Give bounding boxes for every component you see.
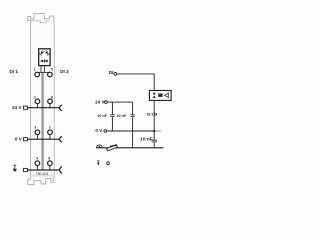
fork contact 24V xyxy=(59,105,61,111)
terminal 0V right xyxy=(104,130,107,133)
rail contact dot xyxy=(98,146,100,148)
housing bottom foot xyxy=(28,178,54,184)
LED D2 xyxy=(44,50,50,56)
connector square 0V xyxy=(23,138,27,141)
block glyph opto xyxy=(165,92,169,98)
connector square 24V xyxy=(23,106,27,109)
stub t4 xyxy=(36,166,38,171)
legend arrow xyxy=(97,161,100,166)
wire 24V right xyxy=(107,101,132,103)
svg-text:DI 1: DI 1 xyxy=(9,69,18,74)
stub t8 xyxy=(49,166,51,171)
wire 24V corner down xyxy=(132,102,134,148)
legend circle xyxy=(107,162,110,165)
terminal 2 xyxy=(35,99,40,104)
terminal 5 xyxy=(48,72,53,77)
svg-text:DI 2: DI 2 xyxy=(147,113,154,117)
svg-text:DI: DI xyxy=(109,70,114,75)
terminal 7 xyxy=(48,130,53,135)
wire DI horizontal xyxy=(117,73,154,75)
wire 0V stub xyxy=(154,130,161,132)
earth arrow left xyxy=(13,165,18,172)
fork contact earth xyxy=(59,167,61,174)
svg-text:0 V: 0 V xyxy=(95,128,102,133)
housing top profile xyxy=(28,14,54,24)
housing latch notch xyxy=(31,21,49,23)
terminal 24V right xyxy=(105,101,108,104)
wire below C3 xyxy=(153,142,155,148)
wire below block xyxy=(153,100,155,139)
housing bottom separator xyxy=(32,175,54,177)
housing right edge xyxy=(53,24,55,179)
cap branch C1 xyxy=(111,102,113,131)
svg-text:10 nF: 10 nF xyxy=(116,114,126,118)
svg-text:1: 1 xyxy=(34,68,36,72)
input block U2 xyxy=(149,91,171,101)
svg-text:0 V: 0 V xyxy=(15,136,23,141)
connector square earth xyxy=(23,168,27,171)
LED D1 xyxy=(39,50,45,56)
svg-text:10 nF: 10 nF xyxy=(140,136,153,142)
terminal 8 xyxy=(48,161,53,166)
housing left edge xyxy=(28,20,31,179)
wire 0V right xyxy=(107,130,155,132)
capacitor C1 xyxy=(110,115,114,117)
stub t6 xyxy=(49,104,51,108)
suppressor diode xyxy=(41,59,49,63)
svg-text:3: 3 xyxy=(34,125,36,129)
fork contact 0V xyxy=(59,136,61,142)
module body fill xyxy=(31,20,55,177)
wire 0V bus xyxy=(26,138,59,140)
indicator box U1 xyxy=(39,49,50,66)
stub t2 xyxy=(36,104,38,108)
center rib wires xyxy=(41,72,43,170)
svg-text:24 V: 24 V xyxy=(12,105,22,110)
page background xyxy=(0,0,200,200)
svg-text:4: 4 xyxy=(36,156,38,160)
stub t3 xyxy=(36,135,38,140)
wire row1 connector xyxy=(37,71,50,73)
wire 24V bus xyxy=(26,107,59,109)
capacitor C3 xyxy=(152,140,157,142)
connector square DI2 xyxy=(154,113,156,115)
wire earth bus xyxy=(26,169,59,171)
svg-text:5: 5 xyxy=(51,68,53,72)
junction dot xyxy=(153,130,155,132)
terminal 6 xyxy=(48,99,53,104)
svg-text:DI 2: DI 2 xyxy=(60,69,69,74)
terminal 3 xyxy=(35,130,40,135)
block glyph resistor xyxy=(158,94,162,97)
bottom earth line xyxy=(96,147,163,149)
wires box to terminals xyxy=(41,66,44,73)
svg-text:750-401: 750-401 xyxy=(36,172,49,176)
svg-text:8: 8 xyxy=(48,156,50,160)
svg-text:7: 7 xyxy=(49,125,51,129)
block glyph diode xyxy=(153,93,156,98)
terminal 4 xyxy=(35,161,40,166)
svg-text:2: 2 xyxy=(34,96,36,100)
stub t7 xyxy=(49,135,51,140)
wire DI vertical xyxy=(153,74,155,91)
white circuit area xyxy=(99,101,154,148)
svg-text:24 V: 24 V xyxy=(95,99,104,104)
rail contact arc xyxy=(97,145,103,148)
terminal DI xyxy=(114,73,117,76)
terminal 1 xyxy=(35,72,40,77)
blade contact xyxy=(107,145,118,151)
capacitor C2 xyxy=(130,115,134,117)
svg-text:10 nF: 10 nF xyxy=(97,114,107,118)
